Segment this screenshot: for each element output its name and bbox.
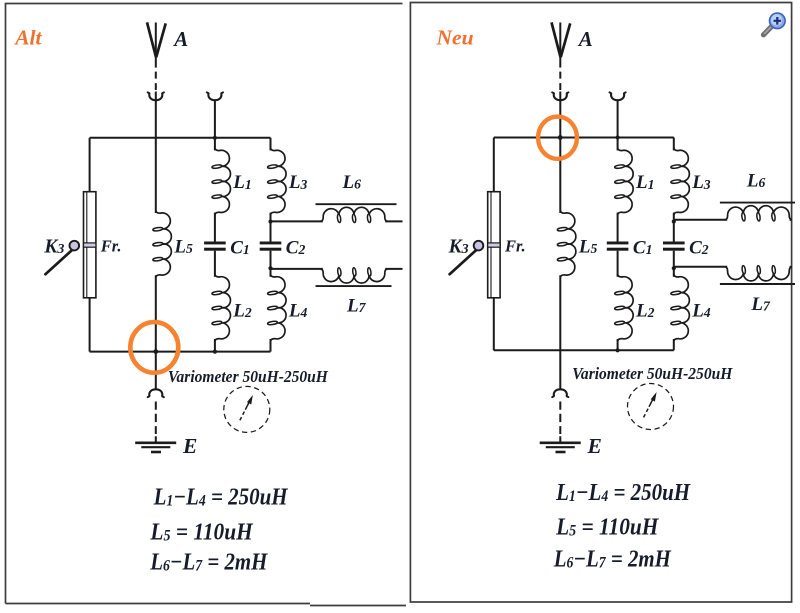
bottom bus wire (Alt) — [90, 351, 271, 353]
right panel border (Neu) — [410, 3, 791, 603]
wire C1 to L2 (Alt) — [214, 251, 216, 277]
svg-text:Variometer 50uH-250uH: Variometer 50uH-250uH — [168, 367, 329, 386]
wire top bus to L5 (Neu) — [559, 138, 561, 214]
capacitor C2 (Alt) — [260, 242, 282, 245]
wire L4 to bottom bus (Alt) — [270, 339, 272, 352]
wire top bus to fuse (Alt) — [89, 138, 91, 192]
inductor L6 (Neu) — [725, 206, 792, 220]
wire top bus corner to L3 (Neu) — [673, 138, 675, 151]
wire L2 to bottom bus (Neu) — [617, 339, 619, 350]
svg-text:Alt: Alt — [13, 25, 42, 49]
earth dashed wire (Alt) — [155, 402, 157, 435]
wire L6 right lead (Neu) — [790, 219, 791, 221]
wire L1 to C1 (Alt) — [214, 213, 216, 242]
spare socket cup (Neu) — [611, 93, 624, 100]
svg-text:E: E — [587, 434, 602, 458]
wire L3 to C2 (Neu) — [673, 213, 675, 242]
svg-text:Fr.: Fr. — [504, 236, 526, 255]
junction node L6 tap (Alt) — [268, 219, 272, 223]
wire socket to top bus (Neu) — [617, 100, 619, 137]
antenna lead dashed wire (Alt) — [155, 72, 157, 90]
inductor L5 (Neu) — [560, 210, 576, 277]
wire antenna to top bus (Neu) — [559, 92, 561, 138]
top bus wire (Neu) — [494, 137, 674, 139]
variometer dial (Neu) — [628, 384, 674, 430]
svg-text:L1−L4 = 250uH: L1−L4 = 250uH — [153, 484, 289, 510]
wire top bus to L1 (Neu) — [617, 138, 619, 151]
L7 core line (Neu) — [720, 283, 795, 285]
wire L7 right lead (Neu) — [790, 266, 791, 268]
wire L5 to bottom bus (Alt) — [155, 275, 157, 351]
junction node L6 tap (Neu) — [672, 219, 676, 223]
antenna A (Alt) — [147, 22, 166, 57]
wire C2 to L4 (Neu) — [673, 251, 675, 277]
wire bottom bus to earth cup (Alt) — [155, 352, 157, 389]
magnifier zoom icon — [764, 12, 786, 35]
ground symbol E (Neu) — [540, 441, 581, 444]
L6 core line (Neu) — [720, 202, 795, 204]
inductor L1 (Alt) — [215, 148, 231, 215]
switch K3 pivot (Alt) — [70, 241, 80, 251]
antenna plug-socket cup (Alt) — [149, 93, 162, 100]
earth plug-socket cup (Neu) — [554, 389, 567, 396]
wire L7 tap lead (Alt) — [271, 268, 323, 270]
earth plug-socket cup (Alt) — [149, 389, 162, 396]
junction node L7 tap (Neu) — [672, 266, 676, 270]
wire top bus to L5 (Alt) — [155, 138, 157, 213]
inductor L2 (Neu) — [618, 274, 634, 341]
wire L1 to C1 (Neu) — [617, 213, 619, 242]
L7 core line (Alt) — [316, 285, 392, 287]
ground symbol E (Alt) — [135, 441, 176, 444]
wire L6 tap lead (Neu) — [674, 219, 727, 221]
wire bottom bus to earth cup (Neu) — [559, 350, 561, 388]
svg-text:L1−L4 = 250uH: L1−L4 = 250uH — [555, 480, 691, 506]
wire L6 right lead (Alt) — [385, 220, 402, 222]
svg-text:Fr.: Fr. — [100, 236, 122, 255]
inductor L5 (Alt) — [156, 210, 172, 277]
wire fuse to bottom bus (Alt) — [89, 298, 91, 352]
wire socket to top bus (Alt) — [214, 100, 216, 138]
wire L5 to bottom bus (Neu) — [559, 275, 561, 350]
spare socket cup (Alt) — [208, 93, 221, 100]
inductor L1 (Neu) — [618, 148, 634, 215]
antenna plug-socket cup (Neu) — [554, 93, 567, 100]
wire top bus to fuse (Neu) — [493, 138, 495, 192]
earth dashed wire (Neu) — [559, 402, 561, 435]
svg-text:A: A — [172, 27, 188, 51]
junction node bottom bus / variometer (Alt) — [153, 349, 158, 354]
inductor L7 (Alt) — [320, 269, 387, 283]
capacitor C1 (Neu) — [607, 242, 629, 245]
inductor L6 (Alt) — [320, 207, 387, 221]
wire C1 to L2 (Neu) — [617, 251, 619, 277]
top bus wire (Alt) — [90, 137, 271, 139]
wire top bus corner to L3 (Alt) — [270, 138, 272, 151]
inductor L7 (Neu) — [725, 267, 792, 281]
junction node bottom bus / L2 branch (Alt) — [213, 350, 217, 354]
variometer needle (Neu) — [644, 407, 649, 418]
inductor L3 (Alt) — [271, 148, 287, 215]
svg-text:Neu: Neu — [436, 25, 474, 49]
svg-text:E: E — [182, 434, 197, 458]
antenna A (Neu) — [552, 22, 571, 57]
inductor L3 (Neu) — [674, 148, 690, 215]
L6 core line (Alt) — [316, 203, 397, 205]
inductor L2 (Alt) — [215, 274, 231, 341]
wire antenna to top bus (Alt) — [155, 92, 157, 138]
fuse Fr. (Neu) — [488, 192, 500, 298]
junction node top bus / variometer (Neu) — [558, 135, 563, 140]
wire C2 to L4 (Alt) — [270, 251, 272, 277]
wire L4 to bottom bus (Neu) — [673, 339, 675, 350]
wire fuse to bottom bus (Neu) — [493, 298, 495, 351]
junction node top bus / L1 branch (Alt) — [213, 136, 217, 140]
left panel border (Alt) — [6, 4, 407, 606]
svg-text:Variometer 50uH-250uH: Variometer 50uH-250uH — [572, 364, 733, 383]
variometer needle (Alt) — [240, 410, 245, 421]
wire top bus to L1 (Alt) — [214, 138, 216, 151]
wire L7 right lead (Alt) — [385, 268, 402, 270]
switch K3 lever (Alt) — [45, 250, 72, 274]
wire L6 tap lead (Alt) — [271, 220, 323, 222]
highlight circle on bottom junction (Alt) — [130, 322, 178, 373]
inductor L4 (Alt) — [271, 274, 287, 341]
antenna lead dashed wire (Neu) — [559, 72, 561, 90]
capacitor C2 (Neu) — [663, 242, 685, 245]
junction node bottom bus / L2 branch (Neu) — [616, 348, 620, 352]
bottom bus wire (Neu) — [494, 349, 674, 351]
junction node top bus / L1 branch (Neu) — [616, 135, 620, 139]
switch K3 pivot (Neu) — [474, 241, 484, 251]
junction node L7 tap (Alt) — [268, 266, 272, 270]
capacitor C1 (Alt) — [204, 242, 226, 245]
wire L3 to C2 (Alt) — [270, 213, 272, 242]
inductor L4 (Neu) — [674, 274, 690, 341]
fuse Fr. (Alt) — [84, 192, 96, 298]
switch K3 lever (Neu) — [450, 250, 477, 274]
svg-text:A: A — [577, 27, 593, 51]
wire L2 to bottom bus (Alt) — [214, 339, 216, 352]
wire L7 tap lead (Neu) — [674, 266, 727, 268]
highlight circle on top junction (Neu) — [538, 117, 577, 159]
variometer dial (Alt) — [224, 386, 270, 432]
